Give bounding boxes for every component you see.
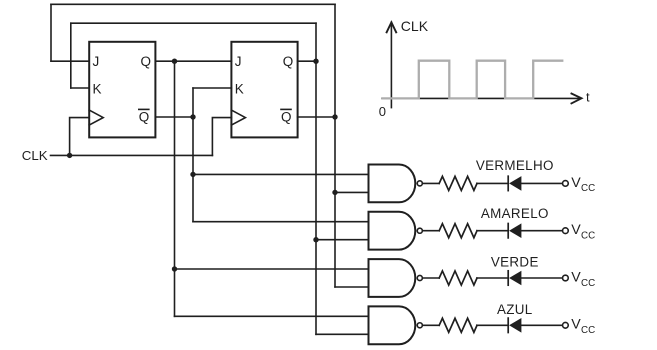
wire gate2 input bottom (U2 Q) (316, 239, 369, 241)
svg-text:CLK: CLK (22, 148, 48, 163)
diode D4 triangle (509, 318, 521, 333)
svg-text:Q: Q (281, 109, 292, 124)
CLK graph time axis arrowhead (571, 93, 582, 104)
NAND gate G3 bubble (417, 275, 422, 280)
wire U1 Q to U2 J (155, 60, 231, 62)
wire net C vertical (U2 Q down) (315, 23, 317, 334)
wire D1 to Vcc (522, 182, 562, 184)
wire R3 to D3 (477, 277, 507, 279)
NAND gate G1 bubble (417, 181, 422, 186)
wire U1 K input (71, 87, 89, 89)
wire D4 to Vcc (522, 324, 562, 326)
node junction U1 Q / net A (172, 59, 177, 64)
svg-text:Q: Q (283, 54, 294, 69)
wire gate4 input bottom (U2 Q) (316, 333, 369, 335)
resistor R1 (439, 176, 477, 190)
wire G1 output (423, 182, 439, 184)
wire U2 Qbar output (298, 116, 335, 118)
Vcc terminal 1 (563, 181, 569, 187)
wire U1 Qbar output (155, 116, 193, 118)
NAND gate G4 body (369, 306, 416, 344)
svg-text:V: V (571, 222, 581, 238)
diode D2 triangle (509, 223, 521, 238)
wire feedback top rail outer (51, 3, 335, 5)
diode D4 cathode bar (507, 318, 509, 332)
node junction net C / gate2 bottom (313, 237, 318, 242)
U1 clock triangle (89, 110, 103, 125)
wire gate3 input top (U1 Q) (175, 268, 369, 270)
wire CLK horizontal (51, 154, 213, 156)
diode D2 cathode bar (507, 224, 509, 238)
wire net D vertical (U2 Qbar down) (334, 4, 336, 287)
node junction CLK (67, 153, 72, 158)
resistor R4 (439, 318, 477, 332)
wire U2 Q output (298, 60, 316, 62)
U2 clock triangle (231, 110, 245, 125)
svg-text:V: V (571, 317, 581, 333)
U1 Q-bar overline (139, 108, 149, 110)
wire D3 to Vcc (522, 277, 562, 279)
wire gate4 input top (U1 Q) (175, 315, 369, 317)
node junction net D / gate1 bottom (332, 190, 337, 195)
wire net B vertical (U1 Qbar down) (192, 88, 194, 222)
CLK graph vertical axis (390, 22, 392, 109)
Vcc terminal 3 (563, 275, 569, 281)
svg-text:CC: CC (581, 231, 595, 242)
resistor R3 (439, 271, 477, 285)
diode D1 cathode bar (507, 176, 509, 190)
diode D3 triangle (509, 271, 521, 286)
node junction U1 Qbar / net B (190, 114, 195, 119)
wire G2 output (423, 230, 439, 232)
svg-text:V: V (571, 175, 581, 191)
svg-text:t: t (586, 90, 590, 105)
wire net A vertical (U1 Q down) (174, 61, 176, 316)
svg-text:0: 0 (379, 104, 386, 119)
svg-text:VERDE: VERDE (491, 255, 539, 270)
wire R2 to D2 (477, 230, 507, 232)
flip-flop U2 body (231, 42, 297, 138)
wire R4 to D4 (477, 324, 507, 326)
svg-text:CC: CC (581, 278, 595, 289)
svg-text:J: J (235, 54, 242, 69)
svg-text:Q: Q (141, 54, 152, 69)
wire G3 output (423, 277, 439, 279)
wire CLK riser to U2 clock (212, 118, 231, 156)
CLK graph waveform (381, 61, 563, 99)
svg-text:J: J (93, 54, 100, 69)
NAND gate G2 bubble (417, 228, 422, 233)
wire CLK riser to U1 clock (70, 118, 90, 156)
wire gate2 input top (U1 Qbar) (193, 221, 369, 223)
node junction U2 Q / net C (313, 59, 318, 64)
svg-text:K: K (93, 82, 102, 97)
svg-text:CC: CC (581, 325, 595, 336)
svg-text:Q: Q (139, 109, 150, 124)
NAND gate G3 body (369, 259, 416, 297)
node junction net B / gate1 top (190, 172, 195, 177)
svg-text:K: K (235, 82, 244, 97)
node junction net A / gate3 top (172, 266, 177, 271)
node junction U2 Qbar / net D (332, 114, 337, 119)
wire R1 to D1 (477, 182, 507, 184)
resistor R2 (439, 224, 477, 238)
svg-text:CC: CC (581, 183, 595, 194)
wire G4 output (423, 324, 439, 326)
wire gate3 input bottom (U2 Qbar) (335, 286, 369, 288)
wire feedback U2 Q to U1 K (left riser) (70, 23, 72, 88)
CLK graph vertical axis arrowhead (386, 22, 396, 33)
wire gate1 input top (U1 Qbar) (193, 173, 369, 175)
svg-text:VERMELHO: VERMELHO (476, 158, 554, 173)
wire D2 to Vcc (522, 230, 562, 232)
svg-text:AMARELO: AMARELO (481, 206, 549, 221)
U2 Q-bar overline (281, 108, 291, 110)
CLK graph time axis (381, 97, 580, 99)
wire U1 J input (51, 60, 89, 62)
wire feedback top rail inner (71, 22, 316, 24)
svg-text:V: V (571, 269, 581, 285)
NAND gate G2 body (369, 212, 416, 250)
wire gate1 input bottom (U2 Qbar) (335, 191, 369, 193)
Vcc terminal 4 (563, 322, 569, 328)
NAND gate G4 bubble (417, 323, 422, 328)
Vcc terminal 2 (563, 228, 569, 234)
wire feedback U2 Qbar to U1 J (left riser) (50, 4, 52, 61)
svg-text:AZUL: AZUL (497, 302, 533, 317)
svg-text:CLK: CLK (401, 18, 429, 34)
diode D3 cathode bar (507, 271, 509, 285)
diode D1 triangle (509, 176, 521, 191)
wire U2 K input (193, 87, 231, 89)
NAND gate G1 body (369, 165, 416, 203)
flip-flop U1 body (89, 42, 155, 138)
